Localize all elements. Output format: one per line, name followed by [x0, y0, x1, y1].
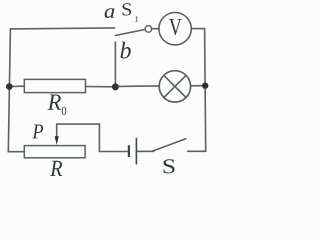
switch S1 blade: [115, 29, 145, 35]
wire R0 to node b: [86, 86, 116, 88]
label S1_1: [135, 16, 138, 21]
wire node to lamp: [115, 85, 159, 88]
wire contact b vertical: [114, 42, 116, 87]
label P: [32, 125, 43, 139]
battery cell negative plate: [128, 145, 130, 157]
wire battery to switch S: [137, 150, 154, 152]
wire left side: [8, 29, 10, 152]
label a: [105, 8, 115, 18]
wire left node to R0: [9, 85, 24, 87]
switch S1 pivot terminal: [145, 26, 152, 33]
wire S contact to bottom-right corner: [188, 150, 206, 152]
junction dot node b bottom: [112, 83, 119, 90]
wire top (contact a run): [10, 28, 114, 29]
rheostat R body: [24, 146, 85, 158]
wire voltmeter to top-right corner: [191, 28, 204, 30]
label S: [164, 159, 175, 173]
voltmeter V: [159, 13, 191, 45]
label S1_S: [123, 3, 132, 15]
resistor R0: [24, 79, 85, 92]
junction dot left node: [6, 83, 13, 90]
label V: [169, 19, 182, 35]
switch S blade: [153, 139, 186, 151]
wire wiper arm run: [57, 124, 129, 151]
label b: [121, 42, 131, 59]
wire bottom-left to rheostat: [8, 151, 24, 153]
wire pivot to voltmeter: [151, 28, 159, 30]
label R: [50, 161, 62, 176]
battery cell positive plate: [135, 138, 137, 165]
junction dot right node: [202, 83, 208, 89]
label R0_R: [48, 95, 61, 110]
wire lamp to right node: [191, 85, 206, 87]
rheostat wiper arrowhead: [55, 136, 59, 145]
label R0_0: [62, 107, 67, 115]
lamp EL1: [159, 71, 190, 102]
wire right side: [205, 29, 206, 152]
